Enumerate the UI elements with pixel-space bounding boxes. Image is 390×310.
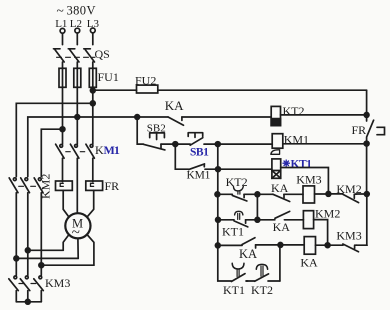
wire row3 start bbox=[218, 244, 242, 246]
svg-text:KM3: KM3 bbox=[296, 173, 321, 187]
wire KM3 star bar bbox=[16, 301, 41, 303]
node tap2 on L2 bbox=[75, 115, 80, 120]
node left rail top bbox=[135, 115, 140, 120]
wire control left rail feed bbox=[77, 116, 137, 118]
fuse FU1-1 bbox=[59, 68, 66, 87]
contactor KM2 pole 3 bbox=[34, 178, 43, 276]
wire motor bottom-left lead bbox=[63, 235, 69, 251]
timer coil KT2 bbox=[271, 106, 280, 125]
wire row2 start bbox=[218, 219, 234, 221]
wire between KT1 KT2 bottom bbox=[246, 280, 255, 282]
coil KM1 bbox=[272, 134, 283, 149]
node row2 left bbox=[216, 217, 221, 222]
timer coil KT1 bbox=[272, 159, 281, 178]
svg-text:KM2: KM2 bbox=[315, 207, 340, 221]
node row1 left bbox=[215, 192, 220, 197]
node KM3 coil right bbox=[326, 192, 331, 197]
node tap1 on L3 bbox=[90, 101, 95, 106]
wire tap2 to left branch B bbox=[28, 117, 78, 177]
wire bottom branch left bbox=[218, 245, 232, 281]
contact KM2 NC row1 bbox=[328, 194, 366, 203]
wire tap3 to left branch C bbox=[41, 129, 62, 176]
node star bar bbox=[25, 299, 30, 304]
svg-text:QS: QS bbox=[95, 47, 110, 61]
wire link B bbox=[16, 257, 78, 259]
contactor KM2 linkage dashes bbox=[19, 185, 36, 187]
node FU2 tap on L3 bbox=[90, 88, 95, 93]
thermal relay FR heater 2 bbox=[86, 181, 103, 190]
node link B bbox=[14, 256, 19, 261]
svg-text:KT2: KT2 bbox=[251, 283, 273, 297]
svg-text:KM1: KM1 bbox=[187, 170, 211, 182]
wire bottom branch right up bbox=[279, 245, 281, 281]
node link A bbox=[25, 248, 30, 253]
wire FR1 to motor bbox=[63, 190, 69, 217]
wire motor bottom-mid lead bbox=[77, 239, 79, 259]
node KA coil right bbox=[325, 243, 330, 248]
svg-text:KM3: KM3 bbox=[45, 276, 70, 290]
svg-text:KT1: KT1 bbox=[291, 159, 313, 171]
wire right rail top bbox=[366, 90, 368, 121]
switch QS pole 1 bbox=[54, 49, 65, 62]
contact KA row2 bbox=[257, 211, 303, 219]
wire KA coil right bbox=[316, 244, 328, 246]
wire right rail mid bbox=[366, 144, 368, 194]
node tap3 on L1 bbox=[60, 127, 65, 132]
thermal contact FR right bbox=[367, 120, 385, 143]
relay contact KA top bbox=[168, 117, 271, 125]
terminal L3 bbox=[90, 28, 95, 33]
contact KA row1 bbox=[257, 194, 303, 201]
wire KT1 coil right bbox=[281, 168, 329, 194]
thermal relay FR heater 1 bbox=[56, 181, 73, 190]
svg-text:FU2: FU2 bbox=[135, 74, 156, 88]
node link C bbox=[39, 263, 44, 268]
wire KT2 to right rail bbox=[281, 114, 367, 116]
svg-text:KA: KA bbox=[300, 256, 318, 270]
svg-text:M1: M1 bbox=[104, 143, 120, 157]
pushbutton SB1 bbox=[175, 133, 218, 146]
node right rail below FR bbox=[364, 141, 369, 146]
wire QS to FU1 pole3 bbox=[92, 62, 94, 68]
wire right rail bottom bbox=[366, 194, 368, 245]
wire link A bbox=[28, 249, 63, 251]
contactor KM2 pole 1 bbox=[9, 178, 18, 276]
node row2 mid bbox=[255, 217, 260, 222]
switch QS pole 3 bbox=[84, 49, 95, 62]
wire QS to FU1 pole2 bbox=[76, 62, 78, 68]
wire aux to KT1 coil bbox=[218, 168, 272, 171]
terminal L2 bbox=[75, 28, 80, 33]
wire QS to FU1 pole1 bbox=[62, 62, 64, 68]
svg-text:KA: KA bbox=[239, 247, 257, 261]
svg-text:SB2: SB2 bbox=[147, 122, 166, 134]
wire KM1 aux branch drop bbox=[175, 144, 188, 169]
wire motor bottom-right lead bbox=[87, 235, 94, 266]
svg-text:FR: FR bbox=[352, 123, 367, 137]
wire KM1 coil row bbox=[218, 143, 272, 145]
wire link C bbox=[41, 264, 94, 266]
motor M bbox=[65, 213, 90, 241]
contact KA row3 bbox=[242, 238, 280, 248]
svg-text:KA: KA bbox=[273, 220, 291, 234]
label KT1 coil bbox=[283, 160, 289, 166]
wire KM2 coil right drop bbox=[314, 220, 328, 246]
contactor KM3 pole 3 bbox=[34, 276, 44, 302]
wire phase L3 fuse to KM1 bbox=[92, 87, 94, 144]
pushbutton SB2 bbox=[143, 133, 175, 150]
wire left rail x218 down bbox=[217, 144, 219, 245]
contact KM3 NC row3 bbox=[328, 244, 367, 252]
svg-text:KT2: KT2 bbox=[226, 175, 248, 189]
node row3 left bbox=[215, 243, 220, 248]
fuse FU2 bbox=[137, 85, 367, 93]
wire FR2 to motor bbox=[87, 190, 94, 217]
node SB1 out bbox=[215, 142, 220, 147]
contactor KM1 main pole 2 bbox=[70, 144, 79, 213]
svg-text:KM2: KM2 bbox=[336, 182, 361, 196]
svg-text:~: ~ bbox=[57, 3, 64, 18]
svg-text:380V: 380V bbox=[67, 4, 96, 18]
contact KM1 aux bbox=[189, 164, 218, 170]
svg-text:KT1: KT1 bbox=[222, 225, 244, 239]
fuse FU1-2 bbox=[74, 68, 81, 87]
fuse FU1-3 bbox=[89, 68, 96, 87]
svg-text:KA: KA bbox=[271, 181, 289, 195]
contactor KM2 pole 2 bbox=[21, 178, 30, 276]
wire mid vertical rows1-2 bbox=[256, 194, 258, 220]
wire phase L2 fuse to KM1 bbox=[76, 87, 78, 144]
contactor KM3 pole 2 bbox=[20, 276, 30, 302]
svg-text:KT2: KT2 bbox=[283, 104, 305, 118]
svg-text:KM3: KM3 bbox=[336, 229, 361, 243]
svg-text:FU1: FU1 bbox=[98, 70, 119, 84]
contactor KM3 linkage dashes bbox=[19, 283, 36, 285]
switch QS pole 2 bbox=[68, 49, 79, 62]
timer contact KT2 NC delayed bbox=[232, 186, 257, 201]
svg-text:KA: KA bbox=[165, 98, 184, 113]
coil KM3 bbox=[303, 186, 315, 203]
node aux KT1 junction bbox=[216, 167, 221, 172]
coil KM2 bbox=[303, 211, 313, 229]
wire L1 drop to QS bbox=[62, 33, 64, 44]
contactor KM3 pole 1 bbox=[9, 276, 18, 302]
wire rail y117 to KA bbox=[137, 116, 168, 118]
svg-text:KT1: KT1 bbox=[223, 283, 245, 297]
contactor KM1 main pole 3 bbox=[86, 144, 95, 181]
contactor KM1 linkage dashes bbox=[66, 151, 85, 153]
wire phase L1 fuse to KM1 bbox=[62, 87, 64, 144]
terminal L1 bbox=[60, 28, 65, 33]
node row1 mid bbox=[255, 192, 260, 197]
wire L2 drop to QS bbox=[76, 33, 78, 45]
wire L3 drop to QS bbox=[92, 33, 94, 45]
wire row1 start bbox=[217, 193, 232, 195]
contactor KM1 main pole 1 bbox=[56, 144, 65, 181]
wire row3 to KA coil bbox=[280, 244, 304, 246]
wire KM3 coil right bbox=[315, 193, 329, 195]
node right rail row1 bbox=[364, 192, 369, 197]
node row3 mid bbox=[278, 243, 283, 248]
wire KM1 coil to right rail bbox=[283, 143, 367, 145]
node right rail KT2 bbox=[364, 113, 369, 118]
svg-text:KM2: KM2 bbox=[39, 174, 53, 199]
timer contact KT2 NO delayed bbox=[255, 264, 280, 281]
svg-text:FR: FR bbox=[105, 179, 120, 193]
switch QS linkage bar bbox=[57, 56, 96, 58]
coil KA bbox=[304, 237, 315, 255]
wire left rail drop bbox=[137, 117, 143, 144]
wire tap1 to left branch A bbox=[16, 103, 93, 176]
node SB2 out bbox=[173, 142, 178, 147]
delay symbol below KM1 coil bbox=[271, 150, 280, 155]
timer contact KT1 NC delayed bbox=[234, 211, 257, 227]
wire FU2 feed bbox=[93, 89, 137, 91]
svg-text:SB1: SB1 bbox=[190, 147, 209, 159]
timer contact KT1 NO delayed bbox=[231, 263, 247, 281]
